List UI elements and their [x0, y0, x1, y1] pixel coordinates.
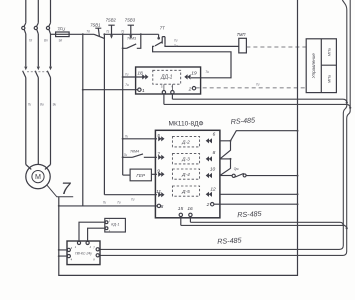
svg-text:5: 5 — [157, 133, 160, 139]
svg-text:7и: 7и — [125, 73, 129, 77]
svg-text:9л: 9л — [59, 38, 63, 42]
svg-text:7г: 7г — [121, 29, 125, 33]
svg-text:М: М — [35, 172, 41, 181]
svg-text:11: 11 — [156, 189, 161, 195]
svg-text:7SB2: 7SB2 — [106, 18, 117, 23]
svg-text:7FU: 7FU — [57, 26, 66, 31]
svg-text:7и: 7и — [174, 44, 178, 48]
svg-text:Qм: Qм — [234, 167, 239, 171]
svg-text:RS-485: RS-485 — [230, 115, 256, 126]
svg-text:18: 18 — [137, 71, 143, 77]
svg-text:Д-2: Д-2 — [181, 140, 190, 146]
svg-text:7КМ4: 7КМ4 — [130, 149, 139, 153]
svg-text:16: 16 — [187, 206, 193, 212]
svg-text:2: 2 — [188, 86, 192, 92]
svg-text:8: 8 — [213, 150, 216, 156]
svg-text:9и: 9и — [53, 103, 57, 107]
svg-text:МК110-8ДФ: МК110-8ДФ — [168, 120, 203, 127]
svg-text:7SB1: 7SB1 — [90, 23, 100, 28]
svg-text:8: 8 — [161, 204, 164, 210]
svg-text:9: 9 — [157, 168, 160, 174]
svg-text:7и: 7и — [124, 153, 128, 157]
svg-text:2: 2 — [206, 202, 210, 208]
svg-text:8и: 8и — [40, 103, 44, 107]
svg-text:ДД-1: ДД-1 — [160, 75, 173, 81]
svg-text:7и: 7и — [28, 103, 32, 107]
svg-text:7и: 7и — [174, 38, 178, 42]
svg-text:Д-4: Д-4 — [181, 172, 190, 178]
svg-text:Управление: Управление — [311, 53, 316, 79]
svg-text:7и: 7и — [256, 82, 260, 86]
svg-text:7МП: 7МП — [237, 32, 247, 37]
svg-text:RS-485: RS-485 — [237, 209, 263, 219]
svg-text:8л: 8л — [44, 38, 48, 42]
svg-text:1: 1 — [142, 88, 145, 94]
svg-text:7: 7 — [157, 151, 160, 157]
svg-text:15: 15 — [178, 206, 184, 212]
svg-text:ПВ-КС-24у: ПВ-КС-24у — [75, 252, 92, 256]
svg-text:6: 6 — [213, 131, 216, 137]
svg-text:7л: 7л — [29, 38, 33, 42]
svg-text:RS-485: RS-485 — [217, 236, 243, 246]
svg-text:7Т: 7Т — [160, 26, 165, 31]
svg-text:12: 12 — [210, 186, 216, 192]
svg-text:ГЕР: ГЕР — [136, 173, 146, 178]
svg-text:7и: 7и — [103, 200, 107, 204]
svg-text:7и: 7и — [125, 134, 129, 138]
svg-text:7и: 7и — [131, 198, 135, 202]
svg-text:МПа: МПа — [328, 48, 332, 56]
svg-text:7SB3: 7SB3 — [125, 18, 136, 23]
svg-text:7и: 7и — [205, 70, 209, 74]
svg-text:7КМ3: 7КМ3 — [127, 36, 136, 40]
svg-text:19: 19 — [191, 70, 197, 76]
svg-text:10: 10 — [210, 166, 216, 172]
svg-text:7л: 7л — [86, 29, 90, 33]
svg-text:7и: 7и — [117, 201, 121, 205]
svg-text:7г: 7г — [106, 29, 110, 33]
svg-text:Д-3: Д-3 — [181, 157, 190, 163]
svg-text:КД-1: КД-1 — [111, 223, 119, 227]
svg-text:МПа: МПа — [328, 75, 332, 83]
svg-text:7и: 7и — [125, 83, 129, 87]
svg-text:7: 7 — [61, 179, 71, 198]
svg-text:Д-5: Д-5 — [181, 189, 190, 195]
